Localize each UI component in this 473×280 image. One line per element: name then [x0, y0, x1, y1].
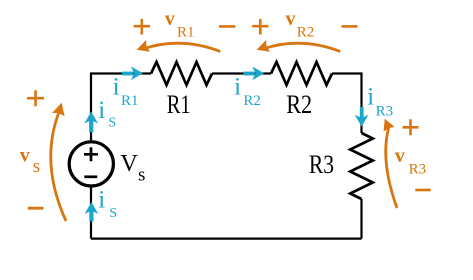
wire left-bottom — [90, 186, 92, 238]
svg-text:v: v — [20, 144, 30, 166]
current arrow iR1 — [122, 66, 143, 80]
voltage source Vs circle — [69, 142, 113, 186]
svg-text:R2: R2 — [243, 93, 261, 109]
svg-text:s: s — [33, 156, 40, 177]
svg-text:V: V — [120, 150, 138, 177]
svg-text:R3: R3 — [376, 104, 394, 120]
svg-text:R1: R1 — [167, 89, 191, 119]
svg-text:R1: R1 — [121, 93, 139, 109]
wire right-bottom — [360, 199, 362, 239]
svg-text:i: i — [98, 97, 105, 124]
minus sign vR1 — [219, 25, 236, 28]
svg-text:R2: R2 — [297, 25, 315, 41]
source minus sign — [84, 175, 97, 178]
current arrow iR3 (down) — [355, 107, 369, 127]
svg-text:R3: R3 — [409, 161, 427, 177]
svg-text:S: S — [108, 116, 116, 131]
wire bottom — [91, 238, 362, 240]
minus sign vR2 — [342, 25, 358, 28]
arc arrow vs — [51, 103, 66, 221]
svg-text:i: i — [367, 84, 374, 111]
plus sign vR1 — [134, 19, 150, 35]
resistor R3 — [350, 133, 373, 199]
svg-text:R2: R2 — [286, 89, 312, 119]
svg-text:R1: R1 — [177, 25, 195, 41]
resistor R1 — [151, 62, 212, 85]
source plus sign — [84, 147, 98, 161]
current arrow is upper — [84, 112, 98, 133]
arc arrow vR2 — [257, 40, 341, 52]
svg-text:v: v — [395, 145, 405, 167]
plus sign vR3 — [403, 119, 419, 135]
minus sign vR3 — [415, 189, 430, 192]
resistor R2 — [271, 62, 332, 85]
svg-text:i: i — [98, 187, 105, 214]
current arrow iR2 — [243, 66, 264, 80]
arc arrow vR1 — [137, 40, 221, 52]
svg-text:R3: R3 — [309, 149, 334, 179]
svg-text:v: v — [286, 8, 296, 30]
svg-text:v: v — [165, 8, 175, 30]
plus sign vR2 — [252, 19, 268, 35]
current arrow is lower — [85, 202, 99, 222]
plus sign vs — [27, 90, 44, 106]
wire R1 to R2 — [212, 72, 271, 74]
minus sign vs — [28, 207, 44, 210]
svg-text:i: i — [113, 74, 120, 101]
svg-text:i: i — [234, 74, 241, 101]
svg-text:S: S — [109, 206, 117, 221]
arc arrow vR3 — [384, 119, 397, 208]
wire top-left — [91, 74, 151, 142]
svg-text:s: s — [138, 165, 145, 186]
wire top-right — [332, 74, 362, 134]
